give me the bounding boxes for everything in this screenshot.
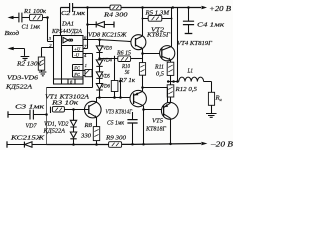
- svg-text:КР544УД2А: КР544УД2А: [51, 28, 82, 35]
- svg-text:VD7: VD7: [26, 123, 38, 130]
- svg-text:VT5: VT5: [152, 118, 164, 125]
- svg-text:VT3 КТ814Г: VT3 КТ814Г: [106, 109, 133, 116]
- svg-text:R8: R8: [83, 123, 92, 129]
- svg-text:VD1, VD2: VD1, VD2: [44, 121, 69, 128]
- svg-text:+20 В: +20 В: [209, 4, 232, 13]
- svg-text:+U: +U: [74, 46, 81, 51]
- svg-text:КТ818Г: КТ818Г: [145, 126, 166, 133]
- svg-text:Вход: Вход: [5, 30, 20, 37]
- svg-text:C5 1мк: C5 1мк: [107, 120, 125, 127]
- svg-text:КД522А: КД522А: [42, 128, 65, 135]
- svg-text:VD4: VD4: [103, 57, 112, 64]
- svg-text:R4 300: R4 300: [103, 12, 129, 19]
- svg-text:FC: FC: [73, 66, 80, 71]
- svg-text:КС215Ж: КС215Ж: [10, 135, 45, 142]
- svg-text:VD6: VD6: [101, 84, 110, 90]
- svg-text:R3 10к: R3 10к: [51, 100, 80, 107]
- svg-text:R1 100к: R1 100к: [23, 8, 47, 15]
- svg-text:R9 300: R9 300: [105, 135, 127, 142]
- svg-text:3: 3: [49, 36, 52, 41]
- svg-text:R12 0,5: R12 0,5: [174, 86, 197, 93]
- svg-text:VD5: VD5: [102, 74, 111, 80]
- svg-text:DA1: DA1: [61, 21, 74, 28]
- svg-text:C1 1мк: C1 1мк: [22, 24, 41, 31]
- svg-text:н: н: [220, 97, 223, 102]
- svg-text:R2 130к: R2 130к: [16, 61, 42, 68]
- svg-text:56: 56: [125, 70, 130, 76]
- svg-text:VT4 КТ819Г: VT4 КТ819Г: [177, 40, 213, 47]
- svg-text:-U: -U: [74, 52, 79, 57]
- svg-text:R5 1,3М: R5 1,3М: [144, 10, 169, 17]
- svg-text:C3 1мк: C3 1мк: [15, 104, 45, 111]
- svg-text:C2 1мк: C2 1мк: [61, 10, 86, 17]
- svg-text:FC: FC: [73, 72, 80, 77]
- svg-text:–20 В: –20 В: [210, 140, 233, 149]
- svg-text:VD8 КС215Ж: VD8 КС215Ж: [88, 32, 127, 39]
- svg-text:330: 330: [80, 134, 91, 140]
- svg-text:C4 1мк: C4 1мк: [197, 22, 225, 29]
- svg-text:VD3: VD3: [103, 46, 112, 52]
- svg-text:1: 1: [85, 63, 87, 68]
- svg-text:R11: R11: [154, 65, 164, 71]
- svg-text:L1: L1: [187, 68, 193, 75]
- svg-text:КД522А: КД522А: [5, 84, 32, 91]
- svg-text:R6 15: R6 15: [116, 51, 131, 57]
- svg-text:КТ815Г: КТ815Г: [146, 32, 171, 39]
- svg-text:0,5: 0,5: [156, 72, 164, 78]
- svg-text:VD3-VD6: VD3-VD6: [7, 75, 39, 82]
- svg-text:R7 1к: R7 1к: [118, 78, 136, 84]
